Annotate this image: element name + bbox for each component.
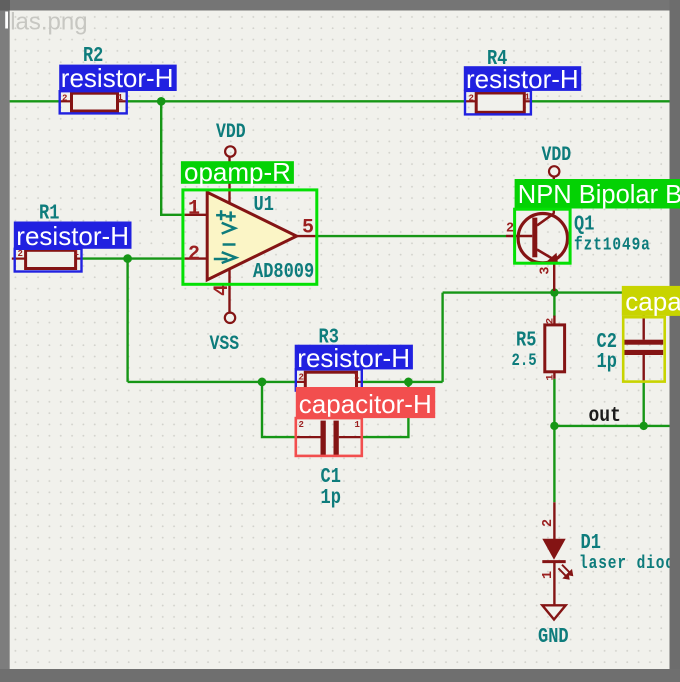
svg-text:U1: U1 xyxy=(254,192,274,216)
svg-text:VDD: VDD xyxy=(542,142,572,166)
svg-text:1p: 1p xyxy=(321,485,341,509)
bbox R4 xyxy=(465,91,531,115)
junction J2 xyxy=(123,254,132,263)
wire emitter rail to C2 xyxy=(443,291,644,293)
svg-text:5: 5 xyxy=(302,216,314,239)
bbox C2 xyxy=(623,317,665,381)
VSS symbol (opamp) xyxy=(225,313,235,323)
ground xyxy=(542,605,565,619)
svg-text:1p: 1p xyxy=(597,349,617,373)
junction J7 C2 out xyxy=(640,422,648,430)
svg-text:capacitor-H: capacitor-H xyxy=(299,389,432,419)
bbox R1 xyxy=(15,249,82,272)
svg-text:fzt1049a: fzt1049a xyxy=(574,234,651,255)
svg-text:VSS: VSS xyxy=(210,331,240,355)
junction J1 xyxy=(157,97,166,106)
svg-text:2: 2 xyxy=(299,420,304,430)
label band capacitor-H xyxy=(296,387,435,418)
resistor R4 xyxy=(465,93,531,112)
wire opamp output to Q1 base xyxy=(317,235,506,237)
wire top rail R2 to R4 xyxy=(127,100,465,102)
svg-text:VDD: VDD xyxy=(216,119,246,143)
svg-text:2.5: 2.5 xyxy=(512,351,537,371)
opamp internal markers xyxy=(214,210,236,263)
svg-text:capacitor-V: capacitor-V xyxy=(625,286,680,316)
wire out rail xyxy=(554,425,670,427)
wire emitter junction down to R5 xyxy=(553,293,555,317)
transistor Q1 xyxy=(506,177,568,291)
svg-text:2: 2 xyxy=(62,94,67,104)
wire J1 down to opamp pin1 level xyxy=(161,101,185,215)
VDD symbol (Q1) xyxy=(549,166,559,176)
wire R3 right to corner xyxy=(362,381,443,383)
label band opamp-R xyxy=(181,161,294,184)
svg-text:AD8009: AD8009 xyxy=(253,260,314,284)
label band capacitor-V C2 xyxy=(622,286,680,316)
svg-text:Q1: Q1 xyxy=(574,212,594,236)
svg-text:resistor-H: resistor-H xyxy=(61,63,174,93)
svg-text:1: 1 xyxy=(188,198,200,221)
op-amp U1 xyxy=(185,157,317,313)
label band resistor-H R2 xyxy=(59,65,177,91)
resistor R3 xyxy=(296,372,362,389)
svg-text:2: 2 xyxy=(469,94,474,104)
wire top rail right of R4 xyxy=(531,100,670,102)
white caret over left strip xyxy=(5,12,8,29)
resistor R2 xyxy=(60,93,127,111)
wire corner up to emitter rail xyxy=(441,293,443,382)
svg-text:1: 1 xyxy=(118,93,124,103)
capacitor C1 xyxy=(296,421,362,456)
svg-text:1: 1 xyxy=(354,372,360,382)
svg-text:1: 1 xyxy=(541,571,556,579)
label band NPN Bipolar xyxy=(515,179,680,209)
junction J5 emitter node xyxy=(550,288,558,296)
label band resistor-H R1 xyxy=(14,222,132,249)
resistor R5 vertical xyxy=(545,316,565,379)
wire J2 down to feedback rail xyxy=(126,259,128,382)
svg-text:las.png: las.png xyxy=(10,9,87,36)
emission arrows xyxy=(558,565,573,580)
svg-text:D1: D1 xyxy=(581,530,601,554)
bbox R2 xyxy=(60,91,127,113)
svg-text:GND: GND xyxy=(538,624,569,648)
bbox R3 xyxy=(296,369,362,390)
svg-text:2: 2 xyxy=(544,318,556,324)
bbox Q1 xyxy=(515,209,571,263)
svg-text:opamp-R: opamp-R xyxy=(184,157,291,187)
capacitor C2 vertical xyxy=(624,293,663,382)
wire C1 left drop xyxy=(262,382,296,437)
label band resistor-H R4 xyxy=(464,66,581,91)
svg-text:1: 1 xyxy=(355,420,361,430)
svg-text:resistor-H: resistor-H xyxy=(466,64,579,94)
svg-text:1: 1 xyxy=(544,374,556,380)
laser diode D1 xyxy=(542,502,573,605)
svg-text:resistor-H: resistor-H xyxy=(16,221,129,251)
svg-text:1: 1 xyxy=(525,93,531,103)
wire R5 down to out node xyxy=(553,379,555,426)
svg-text:3: 3 xyxy=(539,267,554,275)
junction J4 xyxy=(404,378,413,387)
wire C1 right rise xyxy=(362,382,409,437)
bbox C1 xyxy=(296,418,362,456)
svg-text:2: 2 xyxy=(188,243,200,266)
svg-text:2: 2 xyxy=(506,221,514,236)
svg-text:NPN Bipolar BJT: NPN Bipolar BJT xyxy=(518,181,680,209)
wire top rail left of R2 xyxy=(9,100,60,102)
svg-text:2: 2 xyxy=(541,519,556,527)
wire out node down to D1 xyxy=(553,426,555,502)
VDD symbol (opamp) xyxy=(225,146,235,156)
label band resistor-H R3 xyxy=(295,345,413,370)
junction J3 xyxy=(258,378,267,387)
wire feedback rail to R3 xyxy=(128,381,296,383)
junction J6 out node xyxy=(550,422,558,430)
resistor R1 xyxy=(12,250,82,268)
wire C2 bottom to out rail xyxy=(643,382,645,426)
svg-text:2: 2 xyxy=(299,373,304,383)
svg-text:R5: R5 xyxy=(516,328,536,352)
bbox U1 xyxy=(183,190,317,284)
wire R1 to opamp pin2 xyxy=(82,257,185,259)
svg-text:out: out xyxy=(589,402,621,427)
svg-text:laser diode: laser diode xyxy=(579,553,680,574)
